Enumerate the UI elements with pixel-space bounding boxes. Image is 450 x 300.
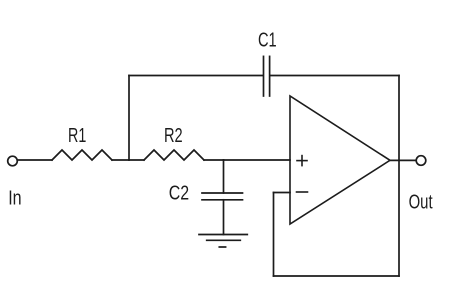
svg-text:R1: R1 bbox=[68, 125, 86, 147]
op-amp - pin mark bbox=[297, 191, 308, 193]
input terminal bbox=[8, 156, 18, 166]
wire feedback to op-amp - input bbox=[274, 192, 291, 194]
capacitor C2 bbox=[202, 192, 243, 194]
node A bbox=[128, 76, 130, 161]
svg-text:C2: C2 bbox=[169, 183, 189, 205]
wire node B to op-amp + input bbox=[224, 159, 291, 161]
wire node A to C1 bbox=[129, 75, 263, 77]
wire R2 to node B bbox=[204, 159, 224, 161]
wire feedback left vertical bbox=[273, 193, 275, 277]
node B bbox=[223, 160, 225, 193]
wire output net right vertical bbox=[398, 76, 400, 277]
op-amp + pin mark bbox=[297, 160, 307, 162]
ground bbox=[199, 234, 247, 236]
output terminal bbox=[416, 156, 426, 166]
wire op-amp output bbox=[390, 159, 416, 161]
svg-text:In: In bbox=[8, 188, 21, 210]
wire C2 to ground bbox=[223, 200, 225, 235]
resistor R1 bbox=[52, 150, 112, 160]
svg-text:Out: Out bbox=[409, 192, 433, 214]
op-amp U1 bbox=[290, 96, 390, 224]
capacitor C1 bbox=[263, 56, 265, 96]
wire node A to R2 bbox=[129, 159, 144, 161]
svg-text:R2: R2 bbox=[164, 125, 183, 147]
wire feedback bottom bbox=[274, 275, 400, 277]
wire input to R1 bbox=[17, 159, 52, 161]
wire C1 to output net bbox=[270, 75, 399, 77]
svg-text:C1: C1 bbox=[258, 30, 277, 52]
wire R1 to node A bbox=[112, 159, 129, 161]
resistor R2 bbox=[144, 150, 204, 160]
